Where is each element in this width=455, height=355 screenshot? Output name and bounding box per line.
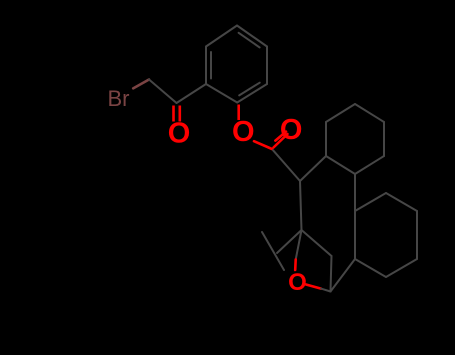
benzene edge B2-B3 [205,47,207,85]
phenyl H2 edge B-BL [326,156,355,174]
bond O1-C7a gray half [321,289,331,292]
bond V1-H2BL phenyl attach [300,156,326,181]
ring HB edge BL-TL [354,211,356,259]
ester C=O main line [274,134,288,148]
ring HB edge TL-T [355,193,386,211]
svg-text:O: O [280,114,303,146]
ring HB edge T-TR [386,193,417,211]
ring HB edge TR-BR [416,211,418,259]
svg-text:O: O [168,118,191,150]
ketone C=O double bond line 1 [172,106,175,122]
bond O1-C7a red half [306,285,321,289]
benzene inner double B4-B5 [239,33,260,48]
bond C3-O1 gray part [296,230,302,260]
bond C3a-C3 [302,230,332,256]
bond Ck-B2 [177,84,207,103]
ester C=O second line [275,132,286,141]
benzene edge B6-B1 [237,84,267,103]
bond Ce-V1 [273,150,300,181]
benzene edge B4-B5 [237,26,267,47]
bond C3-O1 red part [294,260,297,271]
svg-text:O: O [232,116,255,148]
phenyl H2 edge T-TR [355,104,384,122]
benzene edge B5-B6 [266,47,268,85]
bond H2B-HBTL [354,174,356,211]
ketone C=O double bond line 2 [179,106,182,122]
benzene edge B3-B4 [206,26,237,47]
phenyl H2 edge BL-TL [325,122,327,156]
bond C3-C2 diagonal [277,230,302,253]
bond C7a-HBBL [331,259,356,292]
bond C7a-C3a [331,256,332,292]
benzene edge B1-B2 [206,84,237,103]
line C2 toward O1 [262,232,284,270]
phenyl H2 edge TL-T [326,104,355,122]
bond Oe-Ce [254,141,272,149]
ring HB edge BR-B [386,259,417,277]
phenyl H2 edge BR-B [355,156,384,174]
benzene inner double B6-B1 [239,83,260,96]
benzene inner double B2-B3 [210,52,212,79]
bond Br-CH2 [133,80,149,89]
bond V1-C3 long [300,181,302,230]
ring HB edge B-BL [355,259,386,277]
bond CH2-Ck [149,80,177,104]
bond B1-Oe [237,105,240,121]
svg-text:Br: Br [108,86,130,111]
svg-text:O: O [288,269,307,296]
phenyl H2 edge TR-BR [383,122,385,156]
